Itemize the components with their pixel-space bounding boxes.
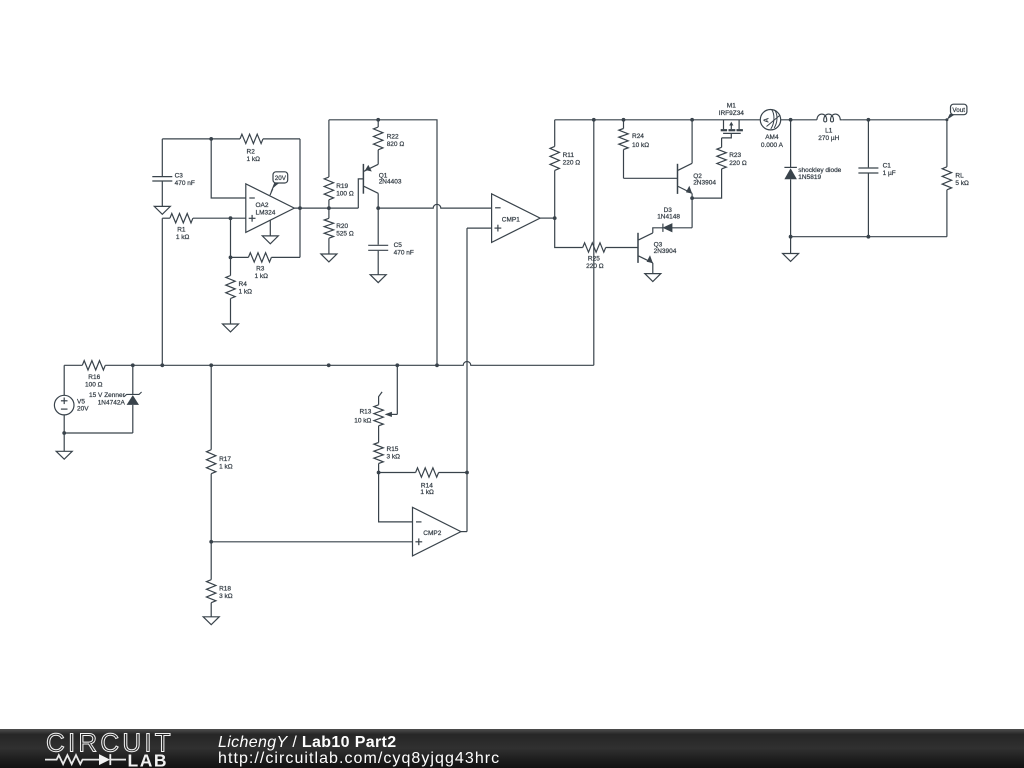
ground below R18	[203, 617, 219, 625]
svg-text:R13: R13	[359, 408, 371, 415]
svg-text:10 kΩ: 10 kΩ	[632, 142, 649, 149]
wire V5 minus to zener bottom	[64, 432, 133, 434]
voltage source V5	[54, 365, 89, 433]
svg-text:M1: M1	[727, 103, 736, 110]
node Vout junction	[945, 118, 948, 121]
resistor R18	[207, 542, 233, 617]
svg-text:CMP1: CMP1	[502, 216, 520, 223]
node F junction R22 top	[376, 118, 380, 122]
node N junction C1 top	[867, 118, 871, 122]
ground below C3	[154, 206, 170, 214]
comparator CMP2	[413, 507, 461, 556]
svg-text:IRF9Z34: IRF9Z34	[719, 110, 745, 117]
wire from node B down to R3/R4	[230, 218, 232, 257]
Vout flag	[947, 104, 967, 120]
svg-text:2N3904: 2N3904	[654, 248, 677, 255]
svg-text:C3: C3	[175, 173, 184, 180]
resistor R23	[692, 138, 747, 198]
svg-text:1 kΩ: 1 kΩ	[239, 289, 253, 296]
node I junction rail to 20V bus vertical	[592, 118, 596, 122]
resistor R17	[207, 365, 233, 542]
resistor R14	[379, 468, 467, 496]
resistor R19	[324, 120, 354, 208]
svg-text:L1: L1	[825, 128, 833, 135]
node X junction R17/R18/CMP2 plus	[209, 540, 213, 544]
potentiometer R13	[354, 365, 397, 442]
svg-text:20V: 20V	[77, 405, 89, 412]
transistor Q1 2N4403 PNP	[363, 164, 401, 208]
resistor R3	[231, 253, 301, 281]
resistor R22	[374, 120, 405, 165]
ground below R20	[321, 254, 337, 262]
svg-text:R18: R18	[219, 586, 231, 593]
node H junction CMP1 output / R11 / R25	[553, 216, 557, 220]
node S junction feedback wire on bus	[160, 363, 164, 367]
resistor R25	[555, 218, 638, 270]
inductor L1	[817, 114, 843, 142]
logo diode	[99, 754, 110, 765]
svg-text:R15: R15	[387, 446, 399, 453]
node W junction rail drop on bus	[435, 363, 439, 367]
svg-text:1 kΩ: 1 kΩ	[420, 489, 434, 496]
node Y junction R15/R14/CMP2 minus branch	[377, 471, 381, 475]
svg-text:R19: R19	[336, 183, 348, 190]
diode D3 1N4148	[657, 198, 692, 232]
wire CMP loop vertical to CMP1 plus	[466, 228, 468, 531]
resistor R15	[374, 443, 400, 473]
node B junction at OA2 non-inverting input	[229, 216, 233, 220]
resistor R24	[619, 120, 678, 179]
svg-text:1N4742A: 1N4742A	[98, 400, 126, 407]
op-amp OA2 LM324	[246, 184, 294, 236]
wire feedback left vertical from R1 down to 20V bus	[161, 218, 163, 365]
node L junction R24 top on rail	[622, 118, 626, 122]
svg-text:R2: R2	[247, 149, 256, 156]
svg-text:1N4148: 1N4148	[657, 213, 680, 220]
node U junction wire joint on bus	[327, 363, 331, 367]
svg-text:C5: C5	[394, 242, 403, 249]
svg-text:OA2: OA2	[256, 202, 269, 209]
node C junction R3/R4	[229, 256, 233, 260]
node V junction R13 wiper on bus	[395, 363, 399, 367]
resistor R1	[162, 214, 246, 242]
wire rail L1 to Vout corner	[843, 119, 947, 121]
svg-text:270 µH: 270 µH	[818, 135, 839, 142]
resistor R2	[211, 134, 300, 163]
wire bottom output bus	[791, 236, 947, 238]
wire 20V bus with hop over CMP loop	[133, 362, 594, 366]
capacitor C1	[858, 120, 895, 237]
shockley diode 1N5819	[784, 120, 841, 237]
svg-text:220 Ω: 220 Ω	[586, 263, 604, 270]
svg-text:R16: R16	[88, 374, 100, 381]
node P junction C1 bottom	[867, 235, 871, 239]
node R junction V5 minus / ground	[62, 431, 66, 435]
svg-text:RL: RL	[955, 172, 964, 179]
svg-text:2N3904: 2N3904	[693, 180, 716, 187]
resistor R4	[226, 257, 252, 324]
resistor R20	[324, 208, 354, 254]
svg-text:A: A	[764, 118, 771, 123]
svg-text:100 Ω: 100 Ω	[85, 382, 103, 389]
svg-text:220 Ω: 220 Ω	[563, 160, 581, 167]
svg-text:820 Ω: 820 Ω	[387, 141, 405, 148]
svg-text:LAB: LAB	[128, 751, 168, 768]
ground below Q3	[645, 274, 661, 282]
svg-text:R11: R11	[563, 152, 575, 159]
capacitor C5	[368, 208, 414, 275]
ground below C5	[370, 275, 386, 283]
wire top rail section1 from R19 to right vertical	[329, 120, 437, 365]
zener diode 15 V Zenner 1N4742A	[89, 365, 142, 433]
svg-text:CMP2: CMP2	[423, 530, 441, 537]
capacitor C3	[152, 139, 195, 206]
svg-text:15 V Zenner: 15 V Zenner	[89, 392, 126, 399]
svg-text:AM4: AM4	[765, 134, 779, 141]
node Q junction zener top	[131, 363, 135, 367]
wire CMP1 plus input from lower vertical	[467, 227, 492, 229]
svg-text:20V: 20V	[275, 175, 287, 182]
ground below R4	[223, 324, 239, 332]
svg-text:1 kΩ: 1 kΩ	[219, 464, 233, 471]
transistor M1 IRF9Z34 PMOS	[719, 103, 745, 138]
svg-text:R23: R23	[729, 152, 741, 159]
transistor Q3 2N3904 NPN	[638, 228, 677, 274]
20V power flag on OA2	[270, 172, 288, 195]
svg-text:LM324: LM324	[256, 209, 276, 216]
wire top power rail right section	[555, 119, 761, 121]
svg-text:1 kΩ: 1 kΩ	[255, 273, 269, 280]
wire OA2 output to Q1 base tee	[294, 207, 358, 209]
svg-text:470 nF: 470 nF	[175, 180, 195, 187]
svg-text:1N5819: 1N5819	[798, 174, 821, 181]
svg-text:C1: C1	[883, 163, 892, 170]
ground below V5	[56, 451, 72, 459]
footer bar	[0, 729, 1024, 768]
wire stub to ground below bus	[790, 237, 792, 254]
svg-text:R3: R3	[256, 266, 265, 273]
svg-text:2N4403: 2N4403	[379, 179, 402, 186]
node Z junction R14 right / CMP loop	[465, 471, 469, 475]
wire vertical rail to bus	[593, 120, 595, 365]
wire to CMP2 plus input	[211, 541, 412, 543]
node G junction Q1 collector / C5	[376, 206, 380, 210]
svg-text:V5: V5	[77, 398, 85, 405]
svg-text:R24: R24	[632, 133, 644, 140]
svg-text:220 Ω: 220 Ω	[729, 160, 747, 167]
node E junction R19/R20 on signal line	[327, 206, 331, 210]
svg-text:1 kΩ: 1 kΩ	[176, 234, 190, 241]
resistor R16	[64, 361, 133, 389]
logo resistor squiggle	[45, 755, 99, 764]
comparator CMP1	[492, 194, 540, 243]
svg-text:1 kΩ: 1 kΩ	[247, 156, 261, 163]
node A junction at R2 left	[209, 137, 213, 141]
node D junction at OA2 output	[298, 206, 302, 210]
svg-text:525 Ω: 525 Ω	[336, 230, 354, 237]
ammeter AM4	[760, 110, 783, 149]
wire stub V5 to ground	[63, 433, 65, 451]
svg-text:5 kΩ: 5 kΩ	[955, 180, 969, 187]
svg-text:3 kΩ: 3 kΩ	[219, 593, 233, 600]
wire CMP1 output	[540, 217, 555, 219]
wire top-left node from C3 to R2	[162, 138, 211, 140]
wire feedback vertical R2-output-R3	[299, 139, 301, 258]
wire Q1 collector node to CMP1 inverting input with hop	[378, 204, 491, 208]
wire up to Q1 base	[358, 179, 363, 208]
svg-text:R4: R4	[239, 281, 248, 288]
svg-text:100 Ω: 100 Ω	[336, 191, 354, 198]
svg-text:470 nF: 470 nF	[394, 250, 414, 257]
wire CMP2 output to feedback loop vertical	[461, 531, 467, 533]
svg-text:3 kΩ: 3 kΩ	[387, 453, 401, 460]
ground below OA2	[262, 236, 278, 244]
svg-text:R22: R22	[387, 133, 399, 140]
node J junction Q2 collector on rail	[690, 118, 694, 122]
svg-text:R25: R25	[588, 255, 600, 262]
resistor RL	[942, 120, 969, 237]
wire CMP2 minus input path	[379, 473, 413, 522]
ground below output bus	[783, 254, 799, 262]
wire from node A down to OA2 inverting input	[211, 139, 246, 198]
node T junction R17 top on bus	[209, 363, 213, 367]
svg-text:R1: R1	[177, 227, 186, 234]
svg-text:R17: R17	[219, 456, 231, 463]
svg-text:shockley diode: shockley diode	[798, 167, 841, 174]
node M junction shockley diode tap	[789, 118, 793, 122]
transistor Q2 2N3904 NPN	[678, 120, 717, 198]
svg-text:0.000 A: 0.000 A	[761, 142, 784, 149]
node K junction Q2 emitter / D3 / R23	[690, 196, 694, 200]
resistor R11	[550, 120, 580, 218]
node O junction shockley/ground on bus	[789, 235, 793, 239]
svg-text:1 µF: 1 µF	[883, 170, 896, 177]
svg-text:10 kΩ: 10 kΩ	[354, 417, 371, 424]
wire rail ammeter to L1	[781, 119, 817, 121]
svg-text:R20: R20	[336, 223, 348, 230]
svg-text:Vout: Vout	[952, 107, 965, 114]
